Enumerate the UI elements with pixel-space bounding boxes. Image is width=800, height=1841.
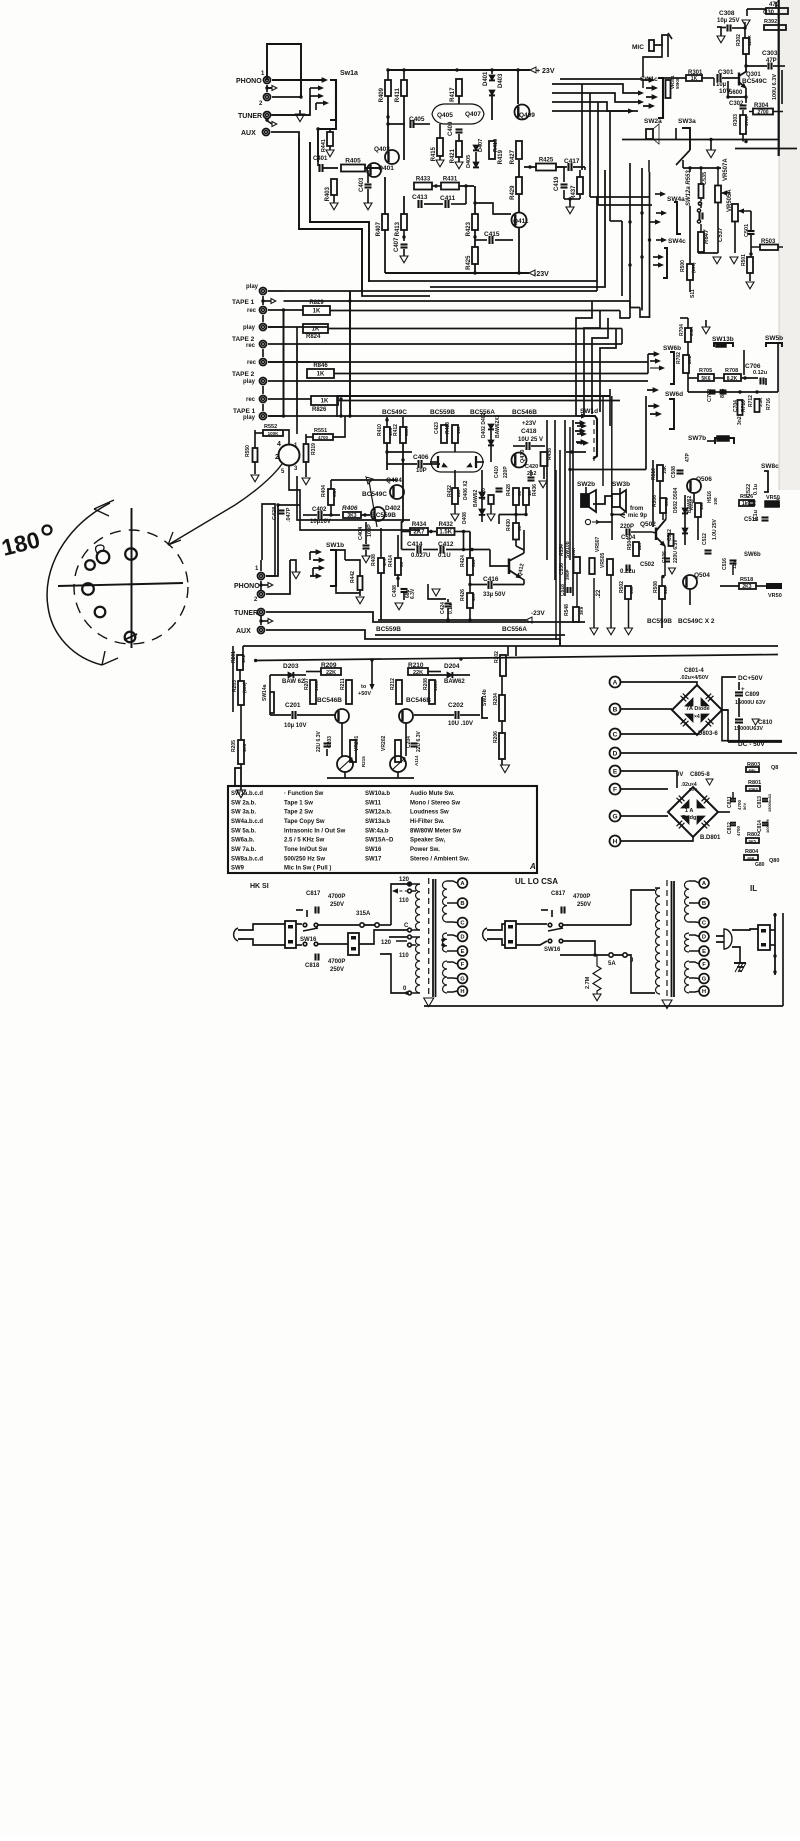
svg-text:H: H bbox=[460, 989, 464, 995]
svg-text:250V: 250V bbox=[577, 902, 591, 908]
svg-text:Q502: Q502 bbox=[640, 521, 656, 528]
svg-text:C404: C404 bbox=[358, 526, 364, 540]
svg-text:D: D bbox=[613, 751, 618, 758]
svg-text:4700P: 4700P bbox=[328, 959, 345, 965]
svg-text:2K3: 2K3 bbox=[742, 584, 751, 590]
svg-text:Power Sw.: Power Sw. bbox=[410, 847, 440, 853]
svg-text:R704: R704 bbox=[679, 324, 685, 336]
svg-text:R419: R419 bbox=[493, 139, 499, 152]
svg-text:R427: R427 bbox=[510, 149, 516, 164]
svg-text:R412: R412 bbox=[393, 424, 399, 436]
svg-text:R518: R518 bbox=[740, 577, 753, 583]
svg-text:R550: R550 bbox=[245, 445, 251, 457]
svg-text:5A: 5A bbox=[608, 961, 616, 967]
svg-text:C508: C508 bbox=[671, 466, 677, 478]
svg-text:A: A bbox=[613, 680, 618, 687]
svg-text:E: E bbox=[613, 769, 618, 776]
svg-text:C: C bbox=[613, 732, 618, 739]
svg-text:+: + bbox=[741, 687, 745, 693]
svg-text:Stereo / Ambient Sw.: Stereo / Ambient Sw. bbox=[410, 856, 470, 862]
svg-text:SW8c: SW8c bbox=[761, 463, 779, 470]
svg-text:D407: D407 bbox=[478, 139, 484, 152]
svg-text:1K6: 1K6 bbox=[242, 743, 247, 752]
svg-text:C809: C809 bbox=[745, 692, 760, 698]
svg-text:7A Diode: 7A Diode bbox=[686, 706, 710, 712]
svg-text:C303: C303 bbox=[762, 50, 778, 57]
svg-text:SW12a R553: SW12a R553 bbox=[686, 170, 692, 206]
svg-text:B: B bbox=[460, 901, 464, 907]
svg-text:C817: C817 bbox=[306, 891, 321, 897]
svg-text:Bridg: Bridg bbox=[682, 815, 696, 821]
svg-text:44u: 44u bbox=[749, 768, 756, 773]
svg-text:250V: 250V bbox=[330, 967, 344, 973]
svg-text:D803-6: D803-6 bbox=[698, 731, 718, 737]
svg-text:mic 9p: mic 9p bbox=[628, 513, 647, 519]
svg-text:-23V: -23V bbox=[531, 610, 545, 617]
svg-text:500/250 Hz Sw: 500/250 Hz Sw bbox=[284, 856, 325, 862]
svg-text:R712: R712 bbox=[748, 395, 754, 407]
svg-text:BC546B: BC546B bbox=[406, 697, 431, 704]
svg-text:SW4a.b.c.d: SW4a.b.c.d bbox=[231, 819, 263, 825]
svg-text:B.D801: B.D801 bbox=[700, 835, 721, 841]
svg-text:R824: R824 bbox=[306, 334, 321, 340]
svg-text:D405: D405 bbox=[466, 155, 472, 168]
svg-text:100K: 100K bbox=[314, 679, 319, 691]
svg-text:VR50: VR50 bbox=[768, 593, 782, 599]
svg-text:D408: D408 bbox=[462, 512, 468, 524]
svg-text:G: G bbox=[612, 814, 617, 821]
svg-text:47P: 47P bbox=[685, 452, 691, 462]
svg-text:2: 2 bbox=[275, 454, 279, 461]
svg-text:VR201: VR201 bbox=[354, 735, 360, 751]
svg-text:· Function Sw: · Function Sw bbox=[284, 791, 324, 797]
svg-text:3.3K: 3.3K bbox=[689, 326, 694, 336]
svg-text:Tape 2 Sw: Tape 2 Sw bbox=[284, 810, 313, 816]
svg-text:5K6: 5K6 bbox=[701, 376, 710, 382]
svg-text:SW9: SW9 bbox=[231, 866, 245, 872]
svg-text:C30: C30 bbox=[763, 10, 775, 16]
svg-text:C408: C408 bbox=[392, 585, 398, 597]
svg-text:4700P: 4700P bbox=[328, 894, 345, 900]
svg-text:0.12u: 0.12u bbox=[753, 370, 767, 376]
svg-text:10µ 25V: 10µ 25V bbox=[717, 18, 739, 24]
svg-text:1K: 1K bbox=[321, 399, 329, 405]
svg-text:R502: R502 bbox=[619, 581, 625, 593]
svg-text:MIC: MIC bbox=[632, 44, 644, 51]
svg-text:R425: R425 bbox=[466, 255, 472, 270]
svg-text:R548: R548 bbox=[564, 604, 570, 616]
svg-text:BAW62: BAW62 bbox=[444, 679, 465, 685]
svg-text:30K8: 30K8 bbox=[748, 787, 758, 792]
svg-text:66K: 66K bbox=[747, 856, 754, 861]
svg-text:C403: C403 bbox=[359, 177, 365, 192]
svg-text:SW10a.b: SW10a.b bbox=[365, 791, 390, 797]
svg-text:SW3b: SW3b bbox=[612, 481, 630, 488]
svg-text:TAPE 2: TAPE 2 bbox=[232, 336, 255, 343]
svg-text:BAW62X2: BAW62X2 bbox=[495, 414, 501, 438]
svg-text:R413: R413 bbox=[395, 221, 401, 236]
svg-text:0.027U: 0.027U bbox=[411, 553, 430, 559]
svg-text:A114: A114 bbox=[414, 755, 419, 766]
svg-text:H: H bbox=[702, 989, 706, 995]
svg-text:to: to bbox=[361, 684, 367, 690]
svg-text:VR507A: VR507A bbox=[723, 158, 729, 181]
svg-text:PHONO: PHONO bbox=[234, 583, 260, 590]
svg-text:Mono / Stereo Sw: Mono / Stereo Sw bbox=[410, 800, 460, 806]
svg-text:4700P: 4700P bbox=[573, 894, 590, 900]
svg-text:play: play bbox=[243, 325, 256, 331]
svg-text:4A7: 4A7 bbox=[382, 557, 387, 566]
svg-text:VR507: VR507 bbox=[595, 536, 601, 552]
svg-text:2K7: 2K7 bbox=[413, 530, 425, 536]
svg-text:.22: .22 bbox=[596, 589, 602, 598]
svg-text:TUNER: TUNER bbox=[238, 113, 262, 120]
svg-text:R211: R211 bbox=[340, 678, 346, 690]
svg-text:G: G bbox=[702, 977, 707, 983]
svg-text:Tone In/Out Sw: Tone In/Out Sw bbox=[284, 847, 328, 853]
svg-text:R710: R710 bbox=[741, 400, 747, 412]
svg-text:SW4c: SW4c bbox=[668, 238, 686, 245]
svg-text:510: 510 bbox=[471, 559, 476, 567]
svg-text:SW1d: SW1d bbox=[580, 408, 598, 415]
svg-text:C818: C818 bbox=[305, 963, 320, 969]
svg-text:50V: 50V bbox=[689, 787, 697, 792]
svg-text:C420: C420 bbox=[525, 464, 538, 470]
svg-text:180: 180 bbox=[699, 502, 704, 510]
svg-text:BAW 62: BAW 62 bbox=[282, 679, 305, 685]
svg-text:C413: C413 bbox=[412, 194, 428, 201]
svg-text:VR505: VR505 bbox=[600, 552, 606, 568]
svg-text:R423: R423 bbox=[466, 221, 472, 236]
svg-text:SW3a: SW3a bbox=[678, 118, 696, 125]
svg-text:E: E bbox=[461, 949, 465, 955]
svg-text:Tape Copy Sw: Tape Copy Sw bbox=[284, 819, 325, 825]
svg-text:D403: D403 bbox=[498, 73, 504, 88]
svg-text:C201: C201 bbox=[285, 702, 301, 709]
svg-text:H: H bbox=[613, 839, 618, 846]
svg-text:Q405: Q405 bbox=[437, 112, 453, 119]
svg-text:R424: R424 bbox=[460, 555, 466, 567]
svg-text:C512: C512 bbox=[702, 533, 708, 545]
svg-text:R510: R510 bbox=[651, 468, 657, 480]
svg-text:BC559B: BC559B bbox=[430, 409, 455, 416]
svg-text:Loudness Sw: Loudness Sw bbox=[410, 810, 449, 816]
svg-text:R431: R431 bbox=[443, 177, 458, 183]
svg-text:SW6b: SW6b bbox=[744, 552, 761, 558]
svg-text:2700: 2700 bbox=[757, 110, 768, 116]
svg-text:4K7: 4K7 bbox=[471, 592, 476, 601]
svg-text:R433: R433 bbox=[416, 177, 431, 183]
svg-text:C308: C308 bbox=[719, 10, 735, 17]
svg-text:SW6d: SW6d bbox=[665, 391, 683, 398]
svg-text:SW1a.b.c.d: SW1a.b.c.d bbox=[231, 791, 263, 797]
svg-text:3n2: 3n2 bbox=[737, 416, 743, 425]
svg-text:SW:4a.b: SW:4a.b bbox=[365, 828, 389, 834]
svg-text:SW1b: SW1b bbox=[326, 542, 344, 549]
svg-text:R204: R204 bbox=[493, 693, 499, 705]
svg-text:Speaker Sw,: Speaker Sw, bbox=[410, 838, 445, 844]
svg-text:100K: 100K bbox=[268, 431, 280, 436]
svg-text:220U 6.3V: 220U 6.3V bbox=[673, 539, 679, 563]
svg-text:play: play bbox=[243, 415, 256, 421]
svg-text:BC559B: BC559B bbox=[647, 618, 672, 625]
svg-text:20K: 20K bbox=[776, 497, 782, 507]
svg-text:R437: R437 bbox=[571, 185, 577, 200]
svg-text:D204: D204 bbox=[444, 663, 460, 670]
svg-text:10µ16V: 10µ16V bbox=[310, 519, 331, 525]
svg-text:C502: C502 bbox=[640, 562, 655, 568]
svg-text:SW8a.b.c.d: SW8a.b.c.d bbox=[231, 856, 263, 862]
svg-text:0.1u: 0.1u bbox=[753, 484, 759, 495]
svg-text:0.1u: 0.1u bbox=[753, 510, 759, 521]
svg-text:C423: C423 bbox=[434, 422, 440, 434]
svg-text:Audio Mute Sw.: Audio Mute Sw. bbox=[410, 791, 455, 797]
svg-text:R438: R438 bbox=[547, 448, 553, 460]
svg-text:1K: 1K bbox=[317, 372, 325, 378]
svg-text:50V: 50V bbox=[742, 803, 747, 810]
svg-text:56: 56 bbox=[517, 490, 522, 496]
svg-text:C: C bbox=[404, 923, 409, 929]
svg-text:120: 120 bbox=[399, 877, 410, 883]
svg-text:Sw1a: Sw1a bbox=[340, 70, 358, 77]
svg-text:SW13a.b: SW13a.b bbox=[365, 819, 390, 825]
svg-text:R207: R207 bbox=[304, 678, 310, 690]
svg-text:R702: R702 bbox=[676, 352, 682, 364]
svg-text:1K2: 1K2 bbox=[241, 654, 246, 663]
svg-text:R215: R215 bbox=[361, 756, 366, 767]
svg-text:rec: rec bbox=[247, 360, 257, 366]
svg-text:SW12a.b.: SW12a.b. bbox=[365, 810, 392, 816]
svg-text:2.7M: 2.7M bbox=[585, 976, 591, 989]
svg-text:play: play bbox=[243, 379, 256, 385]
svg-text:R405: R405 bbox=[345, 158, 361, 165]
svg-text:313: 313 bbox=[663, 586, 668, 594]
svg-text:1K: 1K bbox=[691, 76, 698, 82]
svg-text:R508: R508 bbox=[653, 581, 659, 593]
svg-text:+50V: +50V bbox=[358, 691, 371, 697]
svg-text:TUNER: TUNER bbox=[234, 610, 258, 617]
svg-text:R429: R429 bbox=[510, 185, 516, 200]
svg-text:TAPE 1: TAPE 1 bbox=[233, 408, 256, 415]
svg-text:HK SI: HK SI bbox=[250, 883, 269, 890]
svg-text:315A: 315A bbox=[356, 911, 371, 917]
svg-text:110: 110 bbox=[399, 898, 409, 904]
svg-text:from: from bbox=[630, 506, 643, 512]
svg-text:1.0U 25V: 1.0U 25V bbox=[712, 518, 718, 540]
svg-text:D: D bbox=[702, 935, 706, 941]
svg-text:SW16: SW16 bbox=[365, 847, 382, 853]
svg-text:R804: R804 bbox=[745, 849, 759, 855]
svg-text:1K: 1K bbox=[313, 309, 321, 315]
svg-text:150: 150 bbox=[456, 426, 461, 434]
svg-text:G80: G80 bbox=[755, 862, 765, 868]
svg-text:R500: R500 bbox=[680, 260, 686, 272]
svg-text:BC549C X 2: BC549C X 2 bbox=[678, 618, 715, 625]
svg-text:R802: R802 bbox=[747, 832, 760, 838]
svg-text:S11: S11 bbox=[690, 289, 696, 298]
svg-text:22U 6.3V: 22U 6.3V bbox=[416, 730, 422, 752]
svg-text:3.3K: 3.3K bbox=[758, 397, 763, 407]
svg-text:SW 3a.b.: SW 3a.b. bbox=[231, 810, 256, 816]
svg-text:C805-8: C805-8 bbox=[690, 772, 710, 778]
svg-text:SW 5a.b.: SW 5a.b. bbox=[231, 828, 256, 834]
svg-text:BC559B: BC559B bbox=[376, 626, 401, 633]
svg-text:SW 2a.b.: SW 2a.b. bbox=[231, 800, 256, 806]
svg-text:R410: R410 bbox=[377, 424, 383, 436]
svg-text:R826: R826 bbox=[312, 407, 327, 413]
svg-text:4700: 4700 bbox=[736, 825, 741, 836]
svg-text:R501: R501 bbox=[741, 254, 747, 266]
svg-text:R201: R201 bbox=[231, 651, 237, 663]
svg-text:-23V: -23V bbox=[534, 271, 549, 278]
svg-text:22K: 22K bbox=[326, 670, 336, 676]
svg-text:.047P: .047P bbox=[286, 507, 292, 522]
svg-text:VR202: VR202 bbox=[381, 735, 387, 751]
svg-text:6800: 6800 bbox=[404, 425, 409, 436]
svg-text:R205: R205 bbox=[231, 740, 237, 752]
svg-text:IL: IL bbox=[750, 884, 757, 893]
svg-text:C407: C407 bbox=[394, 237, 400, 252]
svg-text:0.22u: 0.22u bbox=[620, 569, 636, 575]
svg-text:+23V: +23V bbox=[522, 421, 536, 427]
svg-text:250V: 250V bbox=[330, 902, 344, 908]
svg-text:C706: C706 bbox=[745, 363, 761, 370]
svg-text:R302: R302 bbox=[736, 34, 742, 46]
svg-text:.02u×4/50V: .02u×4/50V bbox=[680, 675, 709, 681]
svg-text:(100): (100) bbox=[691, 262, 696, 273]
svg-text:R415: R415 bbox=[431, 146, 437, 161]
svg-text:R647: R647 bbox=[704, 229, 710, 244]
svg-text:TAPE 2: TAPE 2 bbox=[232, 371, 255, 378]
svg-text:SW13b: SW13b bbox=[712, 336, 734, 343]
svg-text:C537: C537 bbox=[718, 227, 724, 242]
svg-text:BC546B: BC546B bbox=[317, 697, 342, 704]
svg-text:Q411: Q411 bbox=[513, 218, 529, 225]
svg-text:R319: R319 bbox=[311, 443, 317, 455]
svg-text:R212: R212 bbox=[390, 678, 396, 690]
svg-text:F: F bbox=[702, 962, 706, 968]
svg-text:3K9: 3K9 bbox=[579, 606, 584, 615]
svg-text:1 A: 1 A bbox=[685, 808, 693, 814]
svg-text:100: 100 bbox=[713, 497, 718, 505]
svg-text:22K: 22K bbox=[413, 670, 423, 676]
svg-text:Hi-Filter Sw.: Hi-Filter Sw. bbox=[410, 819, 445, 825]
svg-text:R436: R436 bbox=[532, 484, 538, 496]
svg-text:100U 6.3V: 100U 6.3V bbox=[772, 74, 778, 100]
svg-text:×4: ×4 bbox=[694, 714, 700, 720]
svg-text:Q80: Q80 bbox=[769, 858, 779, 864]
svg-text:BAW62: BAW62 bbox=[473, 490, 479, 507]
svg-text:BC549C: BC549C bbox=[362, 491, 387, 498]
svg-text:SW2b: SW2b bbox=[577, 481, 595, 488]
svg-text:4: 4 bbox=[277, 441, 281, 448]
svg-text:SW6a.b.: SW6a.b. bbox=[231, 838, 255, 844]
svg-text:390P: 390P bbox=[565, 569, 570, 580]
svg-text:AUX: AUX bbox=[236, 628, 251, 635]
svg-text:2K2: 2K2 bbox=[687, 355, 692, 364]
svg-text:BC556A: BC556A bbox=[502, 626, 527, 633]
svg-text:BC546B: BC546B bbox=[512, 409, 537, 416]
svg-text:AUX: AUX bbox=[241, 130, 256, 137]
svg-text:Intrasonic In / Out Sw: Intrasonic In / Out Sw bbox=[284, 828, 346, 834]
svg-text:R430: R430 bbox=[506, 519, 512, 531]
svg-text:Q407: Q407 bbox=[465, 111, 481, 118]
svg-text:3K3: 3K3 bbox=[347, 513, 356, 519]
svg-text:SW6b: SW6b bbox=[663, 345, 681, 352]
svg-text:C801-4: C801-4 bbox=[684, 668, 704, 674]
svg-text:10U .10V: 10U .10V bbox=[448, 721, 473, 727]
svg-text:SW15A–D: SW15A–D bbox=[365, 838, 394, 844]
svg-text:SW16: SW16 bbox=[544, 947, 561, 953]
svg-text:R406: R406 bbox=[342, 505, 358, 512]
svg-text:F: F bbox=[461, 962, 465, 968]
svg-text:2.5 / 5 KHz Sw: 2.5 / 5 KHz Sw bbox=[284, 838, 325, 844]
svg-text:4700: 4700 bbox=[744, 115, 749, 126]
svg-text:220P: 220P bbox=[503, 466, 509, 478]
svg-text:R407: R407 bbox=[376, 221, 382, 236]
svg-text:120R: 120R bbox=[747, 34, 752, 46]
svg-text:R716: R716 bbox=[766, 398, 772, 410]
svg-text:D402: D402 bbox=[385, 505, 401, 512]
svg-text:10K: 10K bbox=[662, 465, 667, 474]
svg-text:BC549C: BC549C bbox=[382, 409, 407, 416]
svg-text:R421: R421 bbox=[450, 148, 456, 163]
svg-text:C409: C409 bbox=[448, 121, 454, 136]
svg-text:4700: 4700 bbox=[318, 435, 329, 440]
svg-text:SW7b: SW7b bbox=[688, 435, 706, 442]
svg-text:rec: rec bbox=[246, 397, 256, 403]
svg-text:R434: R434 bbox=[412, 522, 427, 528]
svg-text:R504: R504 bbox=[627, 538, 633, 550]
svg-text:R206: R206 bbox=[493, 731, 499, 743]
svg-text:SW17: SW17 bbox=[365, 856, 382, 862]
svg-text:R425: R425 bbox=[539, 158, 554, 164]
svg-text:D402 D402: D402 D402 bbox=[481, 412, 487, 438]
svg-text:110: 110 bbox=[399, 953, 409, 959]
svg-text:10P: 10P bbox=[416, 468, 427, 474]
svg-text:R303: R303 bbox=[733, 114, 739, 126]
svg-text:D401: D401 bbox=[483, 71, 489, 86]
svg-text:A: A bbox=[529, 862, 536, 871]
svg-text:R420: R420 bbox=[481, 488, 487, 500]
svg-text:1.5K: 1.5K bbox=[439, 530, 452, 536]
svg-text:G: G bbox=[460, 977, 465, 983]
svg-text:F: F bbox=[613, 787, 617, 794]
svg-text:R801: R801 bbox=[748, 780, 761, 786]
svg-text:C535: C535 bbox=[702, 172, 708, 185]
svg-text:Q410: Q410 bbox=[520, 450, 526, 463]
svg-text:3K5: 3K5 bbox=[748, 839, 756, 844]
svg-text:R428: R428 bbox=[506, 484, 512, 496]
svg-text:D406 X2: D406 X2 bbox=[463, 480, 469, 500]
svg-text:220: 220 bbox=[637, 542, 642, 550]
svg-text:R411: R411 bbox=[395, 88, 401, 103]
svg-text:B: B bbox=[613, 707, 618, 714]
svg-text:rec: rec bbox=[247, 308, 257, 314]
svg-text:6.3V: 6.3V bbox=[410, 588, 416, 599]
svg-text:1k9: 1k9 bbox=[742, 501, 751, 507]
svg-text:SW14a: SW14a bbox=[262, 684, 268, 701]
svg-text:B: B bbox=[702, 901, 706, 907]
svg-text:R418: R418 bbox=[445, 422, 451, 434]
svg-text:R432: R432 bbox=[439, 522, 454, 528]
svg-text:R404: R404 bbox=[321, 485, 327, 497]
svg-text:Q409: Q409 bbox=[519, 112, 535, 119]
svg-text:C406: C406 bbox=[413, 454, 429, 461]
svg-text:5600: 5600 bbox=[729, 90, 743, 96]
svg-text:C418: C418 bbox=[521, 428, 537, 435]
svg-text:R409: R409 bbox=[379, 87, 385, 102]
